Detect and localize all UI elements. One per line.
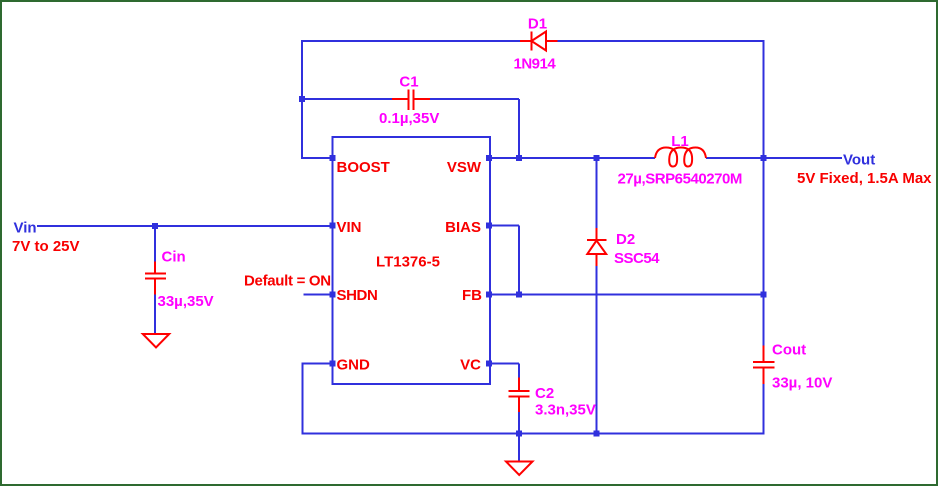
svg-text:D2: D2 — [616, 231, 635, 248]
svg-text:1N914: 1N914 — [514, 56, 557, 73]
svg-text:VIN: VIN — [337, 219, 362, 236]
svg-text:GND: GND — [337, 357, 371, 374]
svg-text:LT1376-5: LT1376-5 — [376, 254, 440, 271]
svg-text:FB: FB — [462, 287, 482, 304]
svg-text:7V to 25V: 7V to 25V — [12, 238, 80, 255]
svg-text:Default = ON: Default = ON — [244, 273, 331, 290]
svg-text:27µ,SRP6540270M: 27µ,SRP6540270M — [618, 171, 742, 188]
svg-text:Cin: Cin — [162, 249, 186, 266]
svg-text:VSW: VSW — [447, 159, 482, 176]
svg-text:Vin: Vin — [14, 220, 37, 237]
svg-text:D1: D1 — [528, 16, 547, 33]
svg-text:33µ,35V: 33µ,35V — [158, 293, 214, 310]
svg-text:VC: VC — [460, 357, 481, 374]
svg-text:Cout: Cout — [772, 342, 806, 359]
svg-text:BOOST: BOOST — [337, 159, 390, 176]
svg-text:SSC54: SSC54 — [614, 250, 660, 267]
svg-text:BIAS: BIAS — [445, 219, 481, 236]
svg-text:L1: L1 — [671, 133, 689, 150]
svg-text:5V Fixed, 1.5A Max: 5V Fixed, 1.5A Max — [797, 170, 932, 187]
svg-text:SHDN: SHDN — [337, 287, 378, 304]
svg-text:3.3n,35V: 3.3n,35V — [535, 402, 596, 419]
svg-text:C2: C2 — [535, 385, 554, 402]
svg-text:33µ, 10V: 33µ, 10V — [772, 375, 832, 392]
svg-text:Vout: Vout — [843, 152, 875, 169]
svg-text:0.1µ,35V: 0.1µ,35V — [379, 110, 439, 127]
svg-text:C1: C1 — [399, 74, 418, 91]
